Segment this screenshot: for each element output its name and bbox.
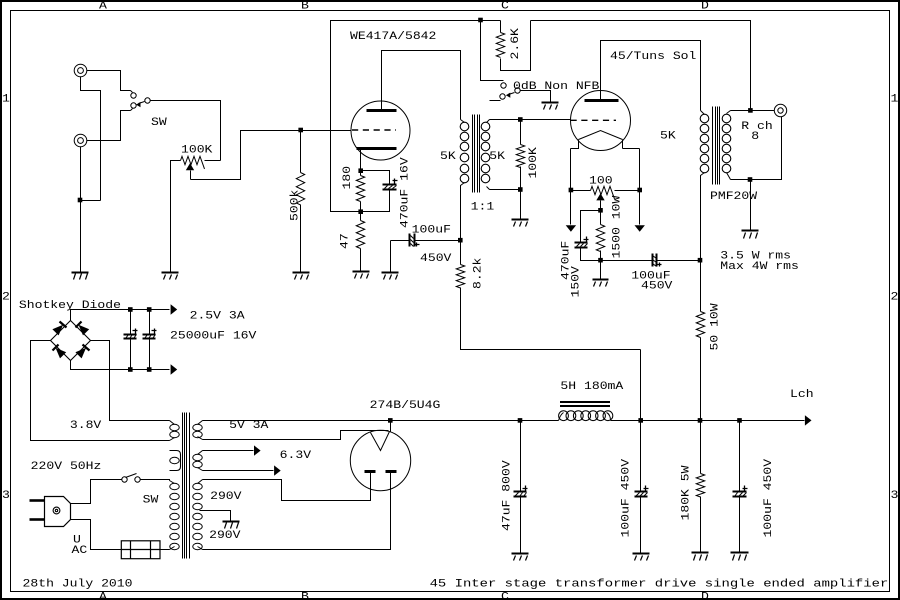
ground 100uF mid (633, 553, 650, 555)
resistor R 8.2k (460, 241, 462, 265)
ground 290V center tap (223, 521, 240, 523)
node 180/47 junction (358, 209, 363, 214)
V1 cathode bar (357, 147, 397, 150)
PT spare winding (170, 451, 181, 471)
resistor R 500K (300, 131, 302, 173)
rectifier V3 envelope (350, 430, 410, 490)
wire rail to filament (390, 421, 392, 432)
svg-text:WE417A/5842: WE417A/5842 (350, 31, 436, 43)
switch SW input common (145, 98, 150, 103)
svg-text:2: 2 (2, 291, 10, 303)
svg-text:220V 50Hz: 220V 50Hz (31, 461, 102, 473)
wire V2 filament right down (639, 149, 641, 225)
node cap1 bottom (128, 367, 133, 372)
wire B+ rail right (611, 420, 805, 422)
wire T2 secondary top to jack (731, 110, 775, 112)
transformer T1 interstage primary winding (461, 120, 465, 123)
wire bridge AC right to 2.5V winding top (91, 341, 170, 421)
svg-text:C: C (501, 1, 509, 13)
switch NFB common (515, 88, 520, 93)
wire V3 right plate to 290V bottom (203, 473, 391, 550)
node T2 bottom ultrapath junction (698, 258, 703, 263)
svg-text:B: B (301, 1, 309, 13)
resistor R 47 (360, 212, 362, 221)
node filament left junction (569, 188, 574, 193)
wire 6.3V bottom (203, 470, 274, 472)
arrow 2.5V plus (171, 304, 178, 314)
output jack R ch (774, 104, 786, 116)
wire cap mid right (415, 240, 461, 242)
ground 47uF (512, 553, 529, 555)
switch SW input lever (139, 102, 145, 104)
node rail 47uF junction (518, 418, 523, 423)
wire 6.3V top (203, 450, 254, 452)
arrow filament right to 2.5V supply (635, 225, 645, 232)
svg-text:25000uF 16V: 25000uF 16V (170, 330, 257, 342)
transformer T2 secondary winding (727, 111, 731, 114)
svg-text:470uF 16V: 470uF 16V (400, 157, 412, 228)
svg-text:SW: SW (151, 117, 167, 129)
node rectifier output junction (388, 418, 393, 423)
svg-text:AC: AC (72, 545, 88, 557)
node rail 180K junction (698, 418, 703, 423)
resistor R 180 (360, 171, 362, 176)
svg-text:100: 100 (589, 176, 613, 188)
svg-text:1: 1 (2, 93, 10, 105)
transformer T2 core (712, 107, 714, 185)
wire V3 left plate to 290V top (203, 473, 371, 501)
ground 100uF right (731, 552, 749, 554)
svg-text:SW: SW (143, 494, 159, 506)
wire T1 secondary top to V2 grid (490, 119, 571, 121)
wire plug top to switch (71, 480, 122, 504)
capacitor 100uF 450V ultrapath (653, 254, 657, 267)
svg-text:28th July 2010: 28th July 2010 (23, 579, 133, 591)
PT 290V winding (198, 480, 203, 484)
switch SW mains contact left (122, 477, 127, 482)
wire fuse to primary bottom (161, 549, 170, 551)
wire bridge minus output (71, 361, 170, 370)
wire J2 hot to switch (87, 111, 131, 141)
V3 plate left bar (365, 470, 376, 473)
wire V1 plate to T1 primary (382, 51, 461, 120)
node rail 100uF junction (638, 418, 643, 423)
diode D1 top-left (52, 325, 63, 336)
svg-text:150V: 150V (570, 266, 582, 298)
wire cathode junction to ground (600, 261, 602, 280)
wire NFB common to ground (521, 91, 551, 103)
transformer T1 secondary winding (487, 120, 490, 123)
diode D3 bottom-left (56, 348, 67, 359)
wire switch to primary (141, 480, 170, 481)
ground V2 cathode (593, 279, 609, 281)
svg-text:47: 47 (340, 233, 352, 249)
wire feedback node to NFB switch (481, 21, 504, 81)
wire cap mid left to ground (390, 241, 392, 273)
wire feedback to output (531, 21, 751, 111)
ground T2 secondary (742, 230, 759, 232)
svg-text:45 Inter stage transformer dri: 45 Inter stage transformer drive single … (430, 579, 889, 591)
input jack J1 (74, 64, 87, 77)
svg-text:45/Tuns Sol: 45/Tuns Sol (610, 51, 696, 63)
node T2 secondary bottom junction (748, 177, 753, 182)
arrow 6.3V top (254, 445, 261, 455)
wire T1 primary bottom (461, 183, 465, 241)
svg-text:C: C (501, 592, 509, 600)
svg-text:100K: 100K (528, 147, 540, 179)
svg-text:1:1: 1:1 (471, 201, 495, 213)
wire wiper to grid V1 (191, 131, 352, 180)
wire pot left to ground (171, 161, 181, 273)
capacitor 470uF 150V (575, 243, 588, 248)
capacitor 100uF 450V coupling (410, 234, 415, 247)
wire switch common to pot (151, 101, 221, 161)
transformer T1 core (472, 115, 474, 193)
ground R47 (353, 271, 370, 273)
resistor R 100 humdinger (571, 190, 591, 192)
svg-text:3: 3 (2, 490, 10, 502)
svg-text:8.2k: 8.2k (473, 257, 485, 289)
fuse F1 (121, 541, 160, 559)
ground NFB switch (542, 102, 559, 104)
svg-text:5K: 5K (440, 151, 456, 163)
svg-text:450V: 450V (641, 281, 673, 293)
node V2 cathode bottom junction (598, 258, 603, 263)
wire plug bottom to fuse (71, 520, 122, 550)
wire bridge AC left to 2.5V winding bottom (31, 341, 170, 441)
svg-text:500k: 500k (290, 189, 302, 221)
capacitor 100uF 450V right (739, 421, 741, 492)
svg-text:47uF 800V: 47uF 800V (502, 460, 514, 531)
triode V1 WE417A/5842 envelope (351, 101, 410, 160)
svg-text:D: D (701, 592, 709, 600)
capacitor 47uF 800V (520, 421, 522, 492)
svg-text:1500 10W: 1500 10W (612, 195, 624, 258)
svg-text:100uF 450V: 100uF 450V (763, 458, 775, 537)
svg-text:0dB Non NFB: 0dB Non NFB (513, 81, 600, 93)
wire T2 secondary bottom to ground (750, 180, 752, 231)
capacitor 25000uF 16V b (149, 310, 151, 335)
pot 100K wiper arrow (186, 163, 194, 170)
svg-text:290V: 290V (210, 491, 242, 503)
wire B+ rail left (203, 420, 559, 422)
resistor R 180K 5W (700, 421, 702, 474)
wire T1 secondary bottom (490, 190, 521, 220)
diode bridge frame (51, 321, 91, 361)
V1 grid dashed (352, 129, 396, 131)
PT 6.3V winding (198, 451, 203, 455)
wire T2 primary bottom down (700, 179, 702, 261)
resistor R 50 10W (700, 261, 702, 312)
V3 plate right bar (386, 470, 397, 473)
svg-text:2.6K: 2.6K (510, 28, 522, 60)
PT primary 220V winding (170, 481, 175, 484)
arrow 6.3V bottom (274, 465, 281, 475)
switch NFB contact 2 (500, 94, 505, 99)
arrow filament left to 2.5V supply (566, 225, 576, 232)
V2 plate bar (585, 99, 619, 102)
ground pot (162, 272, 179, 274)
svg-text:8: 8 (751, 131, 759, 143)
switch NFB lever (509, 93, 515, 95)
wire cathode to C100uF450V (601, 260, 653, 262)
svg-text:Shotkey Diode: Shotkey Diode (19, 300, 121, 312)
node T1 secondary top junction (518, 117, 523, 122)
diode D2 top-right (79, 325, 90, 336)
humdinger wiper arrow (596, 193, 604, 200)
resistor R 1500 10W (600, 211, 602, 225)
svg-text:274B/5U4G: 274B/5U4G (370, 400, 441, 412)
wire NFB open stub (490, 100, 501, 102)
switch NFB contact 1 (501, 83, 506, 88)
PT 5V winding (198, 421, 203, 425)
svg-text:6.3V: 6.3V (280, 450, 312, 462)
node T2 secondary top junction (748, 108, 753, 113)
arrow 2.5V minus (171, 364, 178, 374)
V3 filament (371, 432, 390, 451)
svg-text:Max 4W rms: Max 4W rms (720, 261, 799, 273)
svg-text:3.8V: 3.8V (70, 420, 102, 432)
diode D4 bottom-right (75, 348, 86, 359)
svg-text:100uF: 100uF (412, 225, 451, 237)
node T1 secondary bottom junction (518, 187, 523, 192)
wire J1 shell (81, 77, 101, 201)
svg-text:5K: 5K (660, 131, 676, 143)
capacitor 100uF 450V mid (640, 421, 642, 492)
svg-text:450V: 450V (420, 253, 452, 265)
wire V2 filament left down (570, 149, 572, 225)
plug AC (45, 497, 71, 527)
V2 grid dashed (571, 119, 617, 121)
svg-text:1: 1 (891, 93, 899, 105)
choke 5H 180mA (560, 401, 610, 403)
input jack J2 (74, 134, 87, 147)
wire shell junction (81, 200, 101, 202)
node humdinger wiper junction (598, 208, 603, 213)
svg-text:180: 180 (342, 166, 354, 190)
svg-text:A: A (99, 1, 107, 13)
svg-text:D: D (701, 1, 709, 13)
wire J2 shell to ground (80, 147, 82, 273)
svg-text:Lch: Lch (790, 389, 814, 401)
node 8.2k top junction (458, 238, 463, 243)
wire cap mid left (391, 240, 410, 242)
wire C100uF450V to T2 bottom (657, 260, 701, 262)
node cap1 top (128, 307, 133, 312)
potentiometer 100K (181, 156, 205, 169)
ground T1 secondary (512, 219, 529, 221)
arrow Lch output (805, 415, 812, 425)
PT 2.5V winding (170, 421, 175, 425)
V2 filament (579, 131, 623, 140)
node grid V1 junction (298, 128, 303, 133)
node jacks shell junction (78, 198, 83, 203)
node rail 100uF right junction (737, 418, 742, 423)
switch SW input contact up (131, 93, 136, 98)
switch SW input contact down (131, 103, 136, 108)
node V1 cathode junction (358, 168, 363, 173)
svg-text:B: B (301, 592, 309, 600)
transformer T2 primary winding (701, 111, 705, 115)
svg-text:2: 2 (891, 291, 899, 303)
svg-text:A: A (99, 592, 107, 600)
node feedback junction (478, 18, 483, 23)
wire feedback from cathode junction (331, 21, 501, 212)
wire 290V center tap (200, 511, 231, 522)
svg-text:5H 180mA: 5H 180mA (560, 381, 623, 393)
wire cathode to C470uF (361, 171, 390, 185)
svg-text:180K 5W: 180K 5W (681, 465, 693, 520)
transformer PT core (182, 413, 184, 559)
svg-text:3: 3 (891, 490, 899, 502)
svg-text:2.5V 3A: 2.5V 3A (190, 310, 245, 322)
triode V2 45 envelope (571, 91, 631, 151)
svg-text:100uF 450V: 100uF 450V (621, 458, 633, 537)
switch SW mains contact right (135, 477, 140, 482)
node cap2 bottom (147, 367, 152, 372)
node cap2 top (147, 307, 152, 312)
V1 plate bar (367, 109, 397, 112)
ground coupling cap (382, 272, 399, 274)
svg-text:50 10W: 50 10W (710, 303, 722, 351)
wire V1 cathode lead (360, 149, 362, 171)
svg-text:5V 3A: 5V 3A (229, 420, 269, 432)
svg-text:100K: 100K (181, 144, 213, 156)
ground 180K (692, 552, 709, 554)
ground R500K (293, 272, 310, 274)
wire bridge plus output (71, 310, 170, 321)
wire T2 secondary bottom to jack shell (731, 117, 782, 180)
capacitor 470uF 16V (383, 185, 397, 190)
capacitor 25000uF 16V a (130, 310, 132, 335)
resistor R 100K grid (520, 120, 522, 145)
switch SW mains lever (126, 474, 137, 478)
wire 8.2k to rail (640, 350, 642, 421)
node filament right junction (637, 188, 642, 193)
wire C470uF150V bottom (581, 248, 601, 261)
svg-text:5K: 5K (489, 151, 505, 163)
wire J1 hot to switch (87, 71, 131, 91)
ground input jacks (72, 272, 89, 274)
resistor R 2.6K (500, 21, 502, 33)
wire V2 plate to T2 (601, 41, 701, 111)
wire 5V bottom to filament (203, 431, 389, 440)
svg-text:290V: 290V (209, 530, 241, 542)
wire C470uF to junction (361, 190, 390, 212)
wire wiper to C470uF150V (581, 211, 601, 243)
